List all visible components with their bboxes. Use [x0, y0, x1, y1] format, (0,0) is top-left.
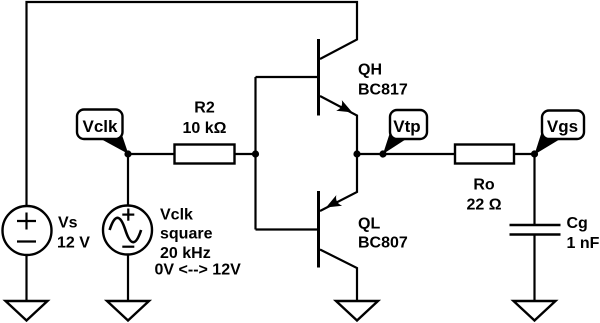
- svg-text:BC807: BC807: [358, 235, 408, 252]
- svg-text:22 Ω: 22 Ω: [466, 197, 501, 214]
- svg-text:QH: QH: [358, 62, 382, 79]
- svg-text:1 nF: 1 nF: [567, 235, 600, 252]
- svg-text:Vs: Vs: [58, 215, 78, 232]
- svg-text:Ro: Ro: [473, 177, 495, 194]
- svg-text:Vtp: Vtp: [393, 117, 420, 136]
- svg-text:QL: QL: [358, 216, 380, 233]
- svg-text:Vgs: Vgs: [547, 117, 578, 136]
- svg-text:10 kΩ: 10 kΩ: [183, 120, 227, 137]
- svg-text:R2: R2: [194, 100, 215, 117]
- svg-text:Vclk: Vclk: [83, 117, 119, 136]
- svg-text:Cg: Cg: [567, 215, 588, 232]
- svg-text:20 kHz: 20 kHz: [160, 245, 211, 262]
- svg-text:12 V: 12 V: [57, 235, 90, 252]
- svg-text:square: square: [160, 226, 213, 243]
- svg-text:0V <--> 12V: 0V <--> 12V: [155, 262, 242, 279]
- svg-text:Vclk: Vclk: [160, 207, 193, 224]
- svg-text:BC817: BC817: [358, 82, 408, 99]
